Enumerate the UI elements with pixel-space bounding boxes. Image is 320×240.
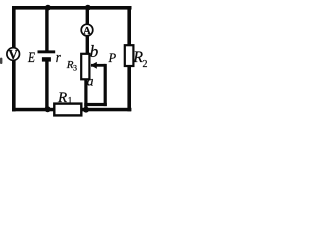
voltmeter V (7, 48, 20, 61)
battery E long plate (38, 50, 56, 53)
svg-text:P: P (108, 51, 117, 65)
svg-text:3: 3 (73, 64, 77, 73)
resistor R3 box (81, 54, 89, 80)
svg-text:R: R (57, 90, 67, 106)
wire ammeter to R3 (86, 37, 89, 55)
wire wiper horizontal shaft (91, 64, 106, 67)
wire battery branch lower (45, 61, 48, 109)
wire wiper bottom horizontal (84, 103, 107, 106)
battery E short plate (42, 57, 51, 61)
junction bottom node a (83, 107, 89, 113)
junction bottom battery (45, 106, 51, 112)
svg-text:2: 2 (143, 59, 148, 70)
junction top battery (45, 5, 51, 11)
svg-text:b: b (90, 42, 99, 61)
svg-text:E: E (27, 50, 35, 66)
svg-text:a: a (87, 73, 94, 88)
left edge scan artifact (0, 58, 2, 64)
wire R3 bottom lead (node a) (84, 79, 87, 110)
svg-text:V: V (8, 47, 18, 62)
junction top ammeter (85, 5, 91, 11)
svg-text:1: 1 (68, 96, 73, 106)
wire ammeter branch upper (86, 6, 89, 24)
resistor R1 box (54, 104, 81, 116)
resistor R2 box (125, 45, 134, 66)
ammeter A (81, 24, 93, 36)
wire right (127, 6, 131, 111)
wire top (12, 6, 132, 10)
wire battery branch upper (45, 6, 48, 51)
wire left (12, 6, 16, 111)
wiper arrowhead (91, 62, 97, 69)
wire wiper vertical (104, 64, 107, 106)
svg-text:A: A (83, 26, 91, 37)
wire bottom (12, 108, 131, 112)
svg-text:r: r (56, 50, 61, 66)
